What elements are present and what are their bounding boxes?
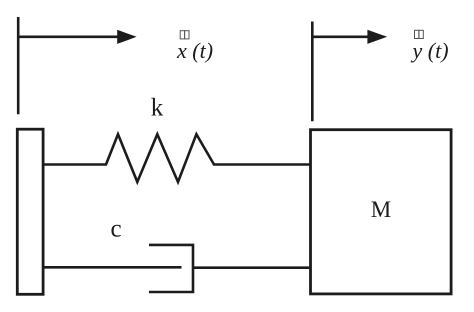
arrow y(t) head	[367, 30, 387, 44]
tofu glyphs above y(t)	[415, 30, 424, 38]
reference line right (vertical)	[311, 22, 314, 122]
svg-text:c: c	[110, 215, 121, 242]
reference line left (vertical)	[17, 17, 20, 114]
svg-text:y (t): y (t)	[410, 38, 448, 63]
damper cylinder cup	[149, 245, 193, 292]
arrow y(t) shaft	[311, 35, 370, 38]
svg-text:M: M	[371, 197, 391, 222]
damper piston rod (left)	[43, 266, 182, 269]
mass M block	[311, 130, 452, 294]
spring k (zigzag + leads)	[43, 134, 310, 182]
damper rod (right)	[193, 266, 310, 269]
arrow x(t) shaft	[17, 35, 120, 38]
tofu glyphs above x(t)	[180, 31, 189, 39]
arrow x(t) head	[117, 30, 136, 44]
wall (fixed support rectangle)	[17, 129, 43, 294]
svg-text:x (t): x (t)	[176, 38, 213, 63]
svg-text:k: k	[151, 95, 164, 122]
